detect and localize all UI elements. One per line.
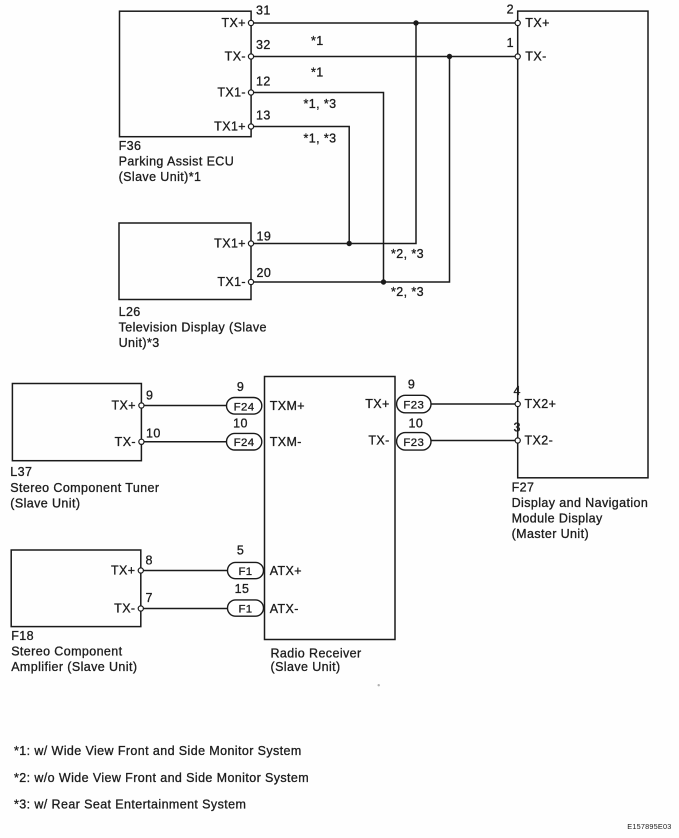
svg-text:TXM+: TXM+ (270, 399, 305, 413)
svg-text:TX1-: TX1- (217, 275, 246, 289)
svg-text:(Slave Unit): (Slave Unit) (271, 660, 341, 674)
pin 32 F36 TX- (248, 54, 253, 59)
pin 31 F36 TX+ (248, 20, 253, 25)
svg-text:20: 20 (257, 266, 272, 280)
pin 10 L37 TX- (139, 439, 144, 444)
svg-text:9: 9 (146, 389, 153, 403)
svg-text:Radio Receiver: Radio Receiver (271, 647, 362, 661)
svg-text:*1: *1 (311, 66, 324, 80)
wire F23 to F27 TX2- (431, 440, 515, 442)
svg-text:9: 9 (237, 380, 244, 394)
svg-text:F36: F36 (119, 139, 142, 153)
svg-text:L37: L37 (10, 465, 32, 479)
pin 20 L26 TX1- (248, 279, 253, 284)
svg-text:TX+: TX+ (365, 397, 389, 411)
connector F23 TX- (397, 433, 431, 451)
svg-text:10: 10 (146, 427, 161, 441)
pin 2 F27 TX+ (515, 20, 520, 25)
svg-text:*3: w/ Rear Seat Entertainment: *3: w/ Rear Seat Entertainment System (14, 797, 246, 811)
svg-text:19: 19 (257, 230, 272, 244)
svg-text:ATX-: ATX- (270, 602, 299, 616)
svg-text:TX-: TX- (114, 602, 135, 616)
radio receiver box (265, 377, 396, 640)
pin 9 L37 TX+ (139, 403, 144, 408)
pin 7 F18 TX- (138, 606, 143, 611)
svg-text:TX2-: TX2- (525, 434, 554, 448)
svg-text:Parking Assist ECU: Parking Assist ECU (119, 155, 235, 169)
svg-text:2: 2 (507, 3, 514, 17)
tuner box L37 (12, 384, 141, 461)
svg-text:F23: F23 (403, 400, 424, 412)
svg-text:9: 9 (408, 378, 415, 392)
svg-text:Stereo Component Tuner: Stereo Component Tuner (10, 481, 159, 495)
connector F1 ATX+ (228, 562, 264, 578)
display box L26 (119, 223, 251, 300)
junction on L26 TX1+ line (347, 241, 352, 246)
wire F36 TX1+ down (254, 127, 350, 244)
svg-text:F23: F23 (403, 437, 424, 449)
wire F36 TX- to F27 TX- (254, 56, 516, 58)
svg-text:4: 4 (514, 384, 521, 398)
svg-text:5: 5 (237, 544, 244, 558)
pin 4 F27 TX2+ (515, 401, 520, 406)
svg-text:F24: F24 (234, 401, 255, 413)
svg-text:TX1+: TX1+ (214, 120, 246, 134)
svg-text:31: 31 (256, 4, 271, 18)
svg-text:Amplifier (Slave Unit): Amplifier (Slave Unit) (11, 660, 137, 674)
pin 19 L26 TX1+ (248, 241, 253, 246)
svg-text:15: 15 (235, 582, 250, 596)
junction on TX- line (447, 54, 452, 59)
pin 12 F36 TX1- (248, 90, 253, 95)
svg-text:TX+: TX+ (111, 564, 135, 578)
svg-text:F18: F18 (11, 629, 34, 643)
connector F1 ATX- (228, 600, 264, 616)
svg-text:(Master Unit): (Master Unit) (512, 527, 589, 541)
pin 1 F27 TX- (515, 54, 520, 59)
svg-text:TX+: TX+ (525, 16, 549, 30)
svg-text:3: 3 (514, 421, 521, 435)
svg-text:Television Display (Slave: Television Display (Slave (119, 321, 267, 335)
svg-text:TX-: TX- (225, 50, 246, 64)
wire F36 TX1- down (254, 93, 384, 283)
svg-text:Display and Navigation: Display and Navigation (512, 496, 649, 510)
svg-text:TX1-: TX1- (217, 86, 246, 100)
wire L26 TX1- up to TX- line (254, 57, 450, 283)
svg-text:TX1+: TX1+ (214, 237, 246, 251)
wire L26 TX1+ up to TX+ line (254, 23, 416, 244)
svg-text:E157895E03: E157895E03 (627, 822, 671, 831)
svg-text:TX-: TX- (525, 50, 546, 64)
svg-text:12: 12 (256, 75, 271, 89)
svg-text:10: 10 (233, 417, 248, 431)
svg-text:*1, *3: *1, *3 (304, 132, 337, 146)
svg-text:*2: w/o Wide View Front and Si: *2: w/o Wide View Front and Side Monitor… (14, 771, 309, 785)
wire F18 TX- to F1 (143, 608, 227, 610)
svg-text:TX-: TX- (368, 433, 389, 447)
pin 8 F18 TX+ (138, 568, 143, 573)
svg-text:Unit)*3: Unit)*3 (119, 336, 160, 350)
pin 13 F36 TX1+ (248, 124, 253, 129)
wire L37 TX+ to F24 (144, 405, 227, 407)
svg-text:*1: w/ Wide View Front and Sid: *1: w/ Wide View Front and Side Monitor … (14, 744, 302, 758)
svg-text:13: 13 (256, 109, 271, 123)
connector F24 TXM+ (227, 398, 262, 415)
svg-text:*1, *3: *1, *3 (304, 97, 337, 111)
wire F36 TX+ to F27 TX+ (254, 22, 516, 24)
svg-text:F24: F24 (234, 437, 255, 449)
connector F24 TXM- (227, 433, 262, 450)
svg-text:TXM-: TXM- (270, 435, 302, 449)
junction on TX+ line (413, 20, 418, 25)
connector F23 TX+ (397, 395, 431, 413)
svg-text:F1: F1 (238, 566, 252, 578)
svg-text:10: 10 (409, 417, 424, 431)
svg-text:ATX+: ATX+ (270, 564, 302, 578)
svg-text:8: 8 (146, 554, 153, 568)
svg-text:TX2+: TX2+ (525, 397, 557, 411)
svg-text:*2, *3: *2, *3 (391, 285, 424, 299)
svg-text:F27: F27 (512, 480, 535, 494)
wire F18 TX+ to F1 (143, 570, 227, 572)
scan speck artifact (378, 684, 380, 686)
svg-text:Module Display: Module Display (512, 511, 603, 525)
svg-text:L26: L26 (119, 305, 141, 319)
pin 3 F27 TX2- (515, 438, 520, 443)
svg-text:TX+: TX+ (222, 16, 246, 30)
svg-text:1: 1 (507, 36, 514, 50)
svg-text:TX+: TX+ (112, 399, 136, 413)
svg-text:*2, *3: *2, *3 (391, 247, 424, 261)
wire L37 TX- to F24 (144, 441, 227, 443)
svg-text:7: 7 (146, 591, 153, 605)
wire F23 to F27 TX2+ (431, 403, 515, 405)
svg-text:F1: F1 (238, 604, 252, 616)
svg-text:32: 32 (256, 38, 271, 52)
svg-text:TX-: TX- (115, 435, 136, 449)
svg-text:(Slave Unit)*1: (Slave Unit)*1 (119, 170, 202, 184)
svg-text:*1: *1 (311, 34, 324, 48)
svg-text:Stereo Component: Stereo Component (11, 645, 122, 659)
ECU box F36 (120, 11, 252, 137)
junction on L26 TX1- line (381, 279, 386, 284)
svg-text:(Slave Unit): (Slave Unit) (10, 497, 80, 511)
master unit box F27 (518, 11, 648, 478)
amplifier box F18 (11, 550, 141, 627)
